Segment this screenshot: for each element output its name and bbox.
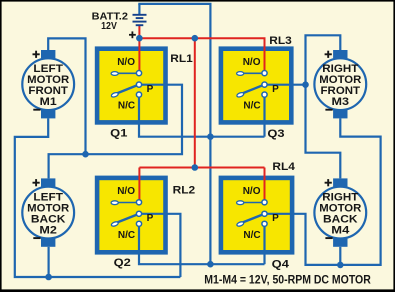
svg-text:RL3: RL3 (269, 35, 292, 47)
svg-text:M2: M2 (39, 225, 57, 237)
svg-text:Q1: Q1 (110, 128, 127, 140)
svg-text:N/C: N/C (118, 101, 135, 112)
svg-text:P: P (272, 84, 279, 95)
svg-text:RL2: RL2 (173, 185, 196, 197)
svg-text:P: P (147, 84, 154, 95)
svg-text:N/O: N/O (243, 186, 261, 197)
svg-text:N/O: N/O (117, 57, 135, 68)
svg-text:RL1: RL1 (170, 53, 193, 65)
svg-text:P: P (272, 213, 279, 224)
svg-text:RL4: RL4 (272, 161, 295, 173)
svg-text:N/C: N/C (118, 230, 135, 241)
svg-text:M3: M3 (332, 96, 350, 108)
svg-text:M1-M4 = 12V, 50-RPM DC MOTOR: M1-M4 = 12V, 50-RPM DC MOTOR (204, 273, 371, 287)
svg-text:Q2: Q2 (114, 257, 131, 269)
svg-text:12V: 12V (101, 21, 117, 32)
svg-text:Q3: Q3 (267, 128, 284, 140)
svg-text:M1: M1 (40, 96, 57, 108)
svg-text:N/O: N/O (117, 186, 135, 197)
svg-text:P: P (147, 213, 154, 224)
svg-text:Q4: Q4 (272, 259, 290, 271)
svg-text:N/C: N/C (243, 101, 260, 112)
svg-text:N/C: N/C (243, 230, 260, 241)
svg-text:N/O: N/O (243, 57, 261, 68)
svg-text:M4: M4 (331, 225, 350, 237)
